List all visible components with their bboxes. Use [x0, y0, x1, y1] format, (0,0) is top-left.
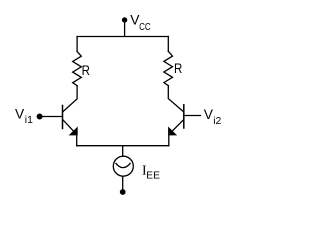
resistor R (right)	[164, 51, 173, 85]
transistor Q2 base bar	[183, 105, 185, 128]
svg-text:CC: CC	[139, 22, 151, 33]
transistor Q1 base bar	[62, 106, 64, 129]
resistor R (left)	[73, 51, 82, 85]
wire left collector drop	[76, 37, 78, 52]
svg-text:EE: EE	[146, 170, 160, 181]
wire Q1 emitter lead	[63, 120, 77, 146]
svg-text:i2: i2	[213, 116, 221, 127]
wire left resistor to collector	[63, 86, 77, 112]
svg-text:R: R	[82, 63, 90, 78]
node dot Vi1 terminal	[37, 114, 43, 120]
wire right resistor to collector	[168, 86, 183, 112]
emitter arrow Q1	[70, 128, 77, 135]
wire right collector drop	[167, 37, 169, 52]
wire bottom rail	[77, 145, 169, 147]
current source arc symbol	[116, 163, 130, 167]
node dot Vcc	[122, 17, 127, 22]
node dot bottom terminal	[120, 189, 126, 195]
svg-text:V: V	[15, 107, 25, 122]
svg-text:i1: i1	[25, 115, 33, 126]
wire Q1 base lead	[40, 116, 63, 118]
wire current source stub top	[122, 146, 124, 157]
wire Q2 base lead	[184, 115, 201, 117]
wire current source stub bottom	[122, 176, 124, 189]
wire top rail Vcc	[77, 36, 168, 38]
svg-text:R: R	[174, 61, 182, 76]
wire Q2 emitter lead	[169, 120, 184, 146]
emitter arrow Q2	[169, 128, 176, 135]
current source IEE circle	[113, 156, 133, 176]
wire Vcc stub	[124, 21, 126, 37]
